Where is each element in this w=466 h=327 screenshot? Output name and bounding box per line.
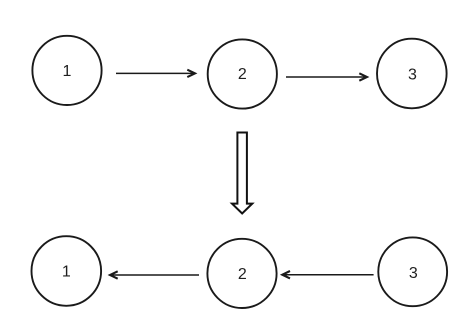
arrow node1 to node2 — [116, 70, 195, 77]
block arrow down (center) — [232, 133, 252, 214]
arrow node2 to node3 — [286, 73, 367, 80]
node 1 (top) — [32, 36, 101, 105]
arrow node3 to node2 (bottom) — [282, 271, 373, 278]
svg-text:1: 1 — [63, 63, 72, 80]
arrow node2 to node1 (bottom) — [110, 271, 199, 278]
node 2 (top) — [208, 39, 277, 108]
svg-text:3: 3 — [409, 265, 418, 282]
svg-text:2: 2 — [238, 66, 247, 83]
node 3 (bottom) — [378, 237, 447, 306]
node 2 (bottom) — [207, 239, 276, 308]
node 3 (top) — [377, 39, 447, 109]
svg-text:3: 3 — [408, 66, 417, 83]
node 1 (bottom) — [32, 236, 102, 306]
svg-text:1: 1 — [62, 263, 71, 280]
svg-text:2: 2 — [238, 266, 247, 283]
